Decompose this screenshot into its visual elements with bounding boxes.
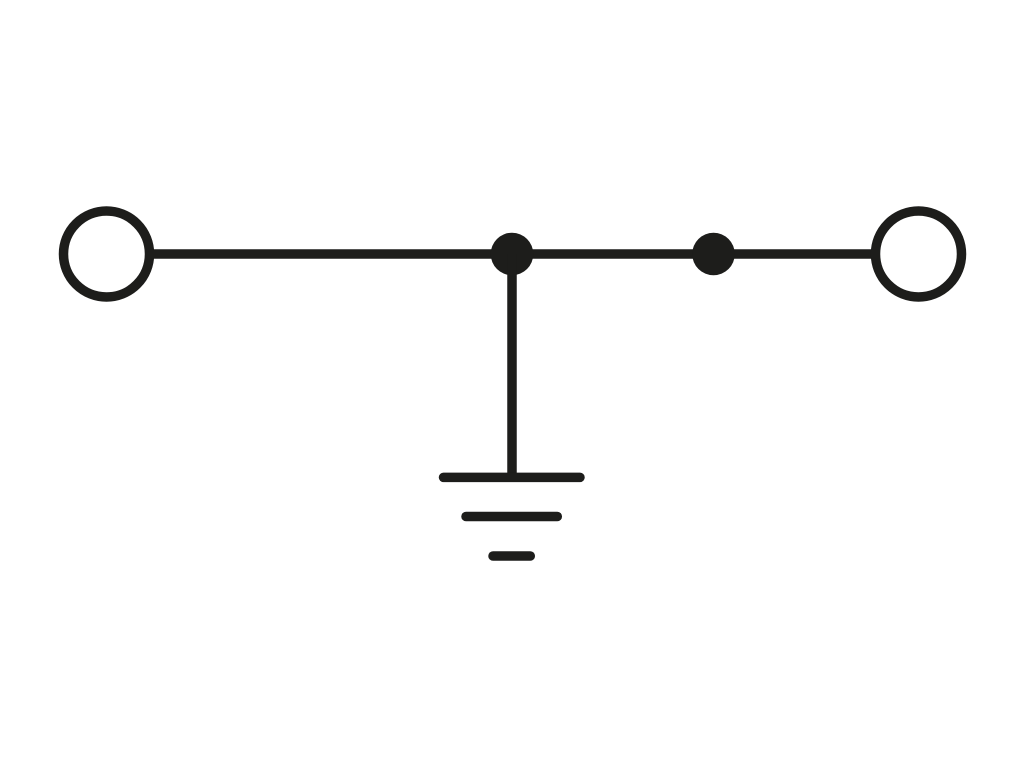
node junction (center, wire to ground tap) — [491, 233, 534, 276]
ground (protective earth symbol, three bars) — [444, 477, 581, 556]
node dot (right internal connection) — [692, 233, 735, 276]
terminal circle right (connection point 2) — [876, 211, 962, 297]
terminal circle left (connection point 1) — [64, 211, 150, 297]
wire (vertical drop from center junction to ground) — [507, 254, 517, 477]
wire (horizontal bus from left terminal to right terminal) — [151, 249, 872, 259]
